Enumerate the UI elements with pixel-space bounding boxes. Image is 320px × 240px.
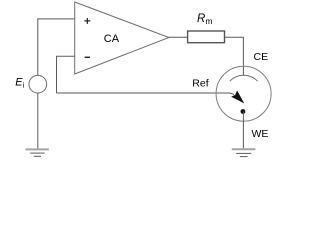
resistor Rm	[188, 31, 225, 43]
ground (left)	[25, 149, 48, 156]
svg-text:CA: CA	[104, 33, 120, 45]
electrochemical cell circle	[216, 66, 271, 121]
wire source to ground	[37, 93, 39, 149]
working electrode dot	[241, 109, 246, 114]
wire cell to ground	[242, 112, 244, 150]
wire - input	[57, 56, 75, 93]
ground (right)	[232, 149, 256, 156]
wire Ref feedback	[57, 93, 235, 95]
op-amp + mark	[84, 18, 90, 24]
wire resistor to cell	[225, 37, 244, 75]
voltage source Ei circle	[29, 75, 47, 93]
svg-text:CE: CE	[254, 51, 269, 63]
wire op-amp output to resistor	[169, 36, 187, 38]
counter electrode arc	[230, 75, 258, 81]
op-amp U1 CA	[75, 2, 169, 74]
wire + input from source to op-amp	[38, 19, 75, 75]
svg-text:Ref: Ref	[192, 77, 208, 89]
op-amp - mark	[85, 56, 90, 58]
svg-text:Rm: Rm	[197, 13, 212, 26]
svg-text:WE: WE	[252, 128, 269, 140]
svg-text:Ei: Ei	[15, 76, 24, 89]
reference electrode arrow	[232, 91, 243, 102]
